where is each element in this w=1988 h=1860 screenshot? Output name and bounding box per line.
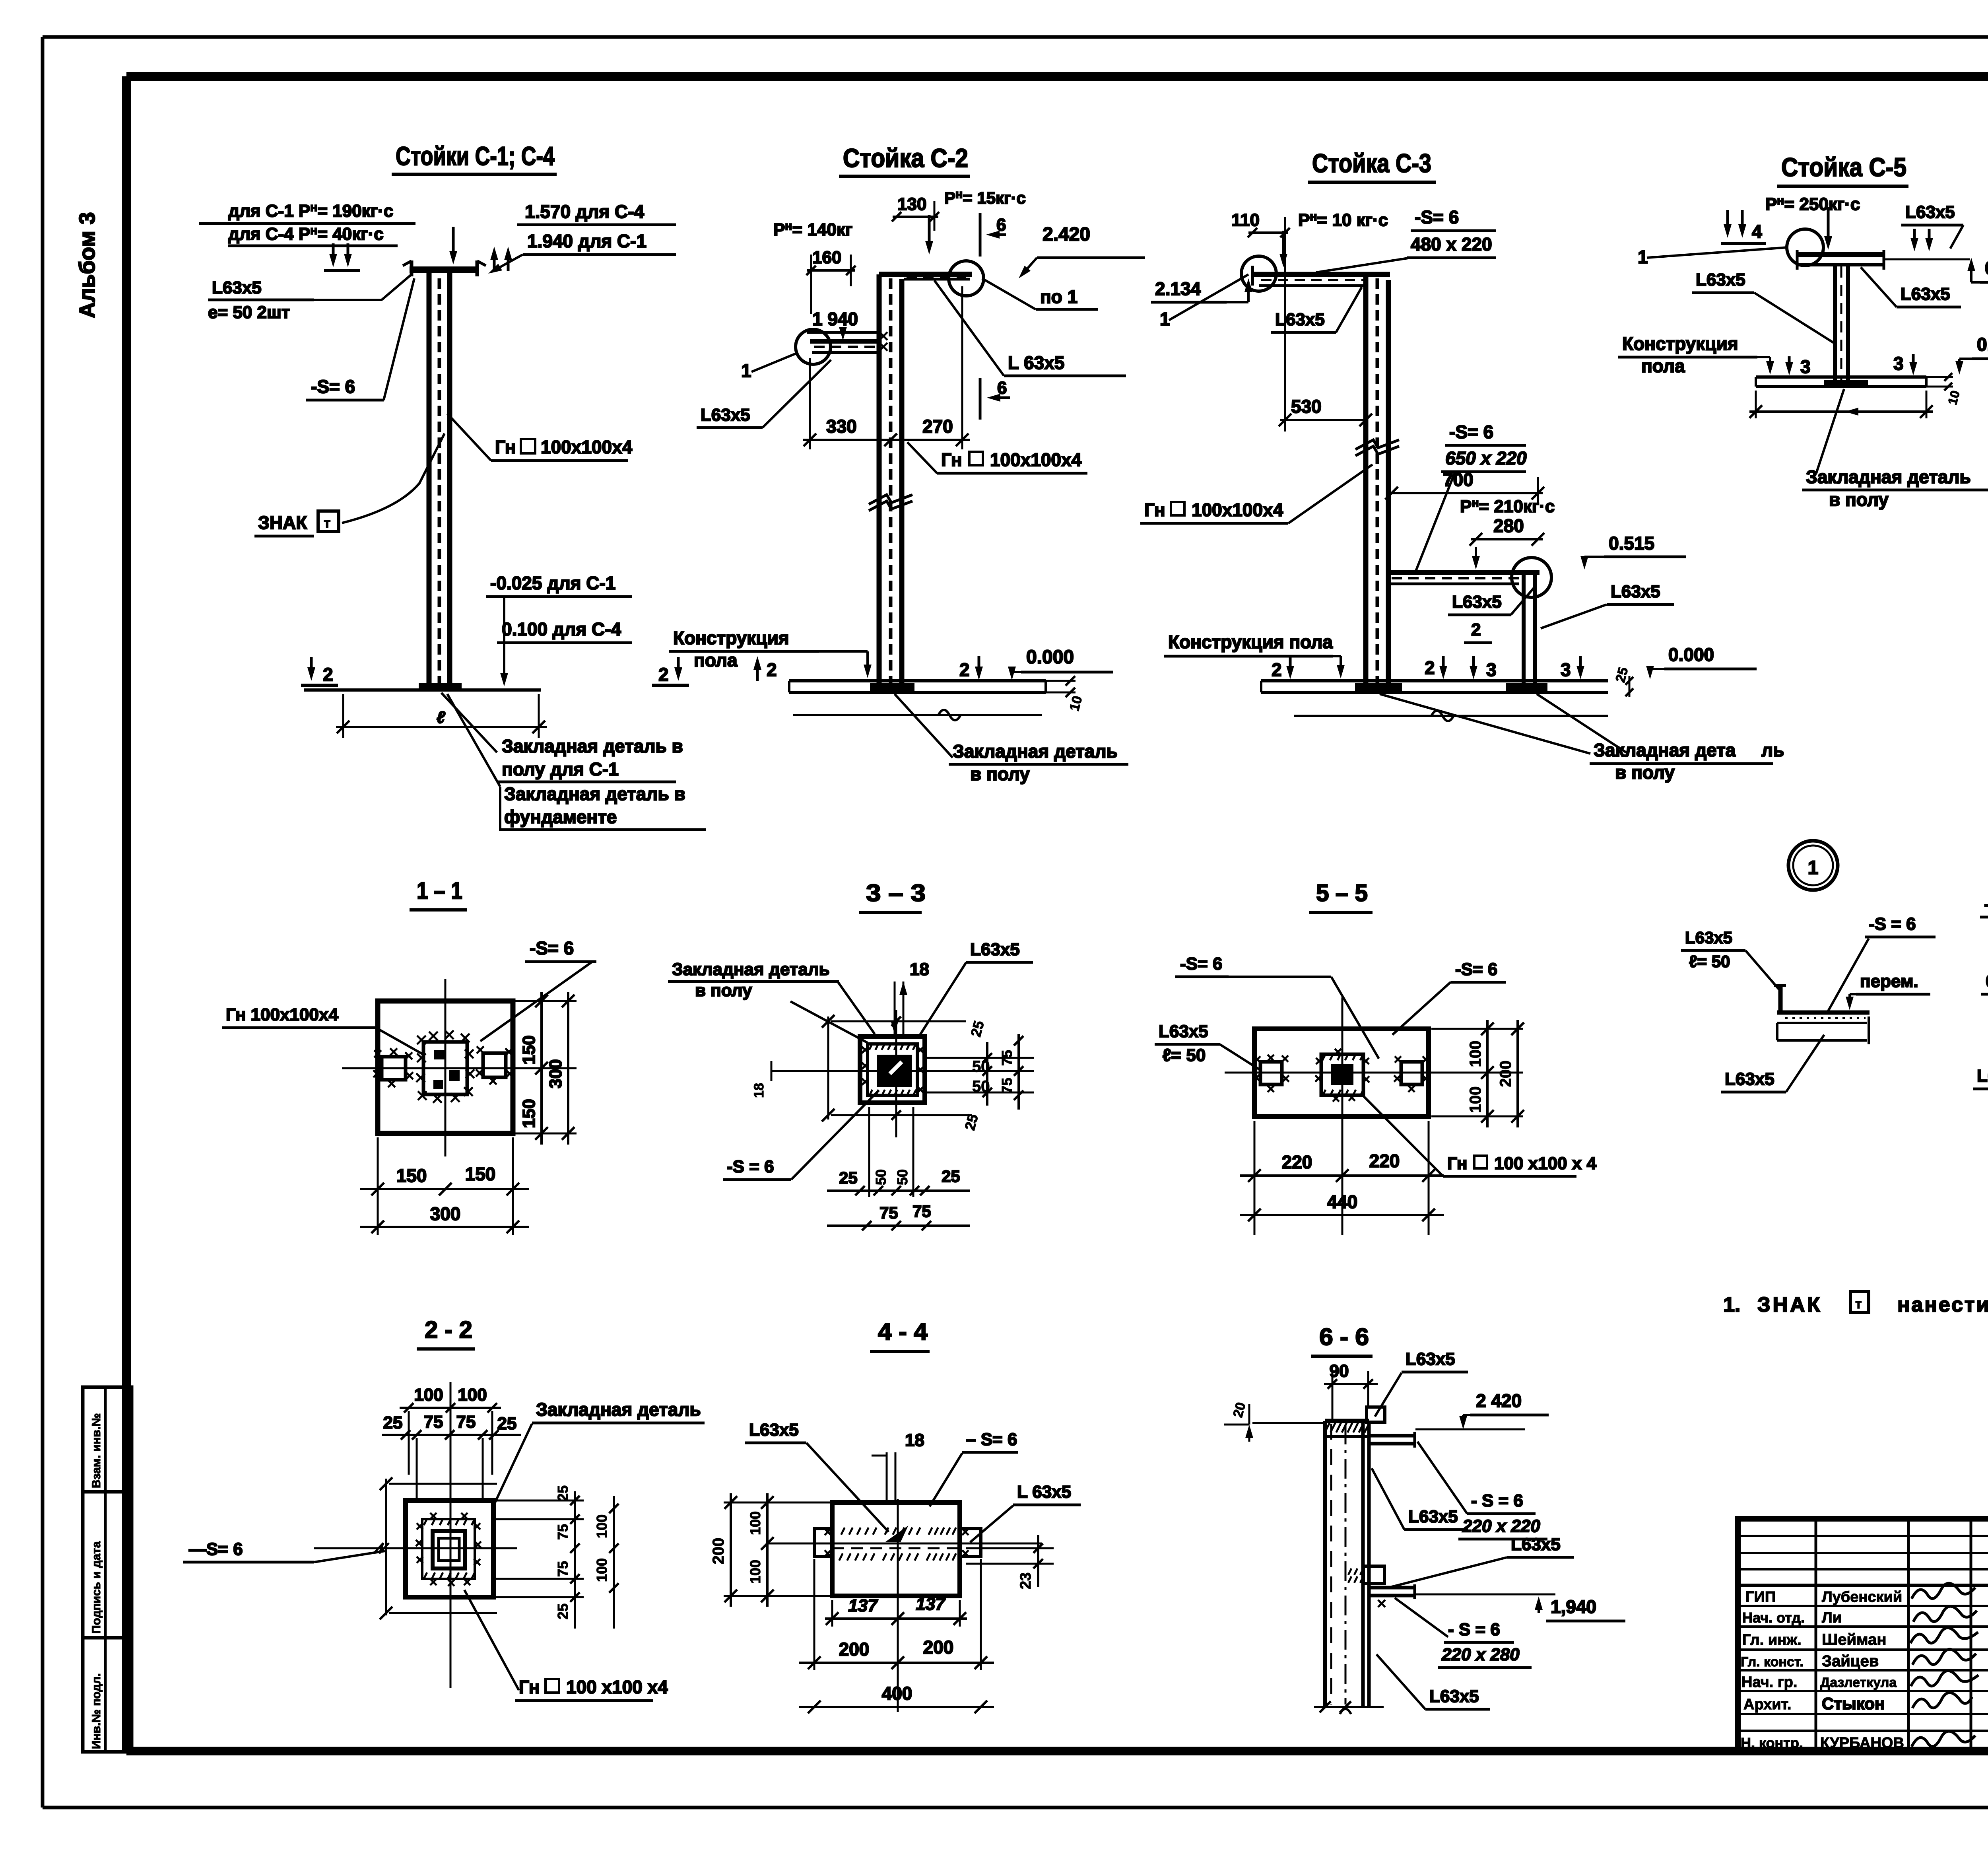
top bracket 6-6 bbox=[1369, 1429, 1525, 1448]
svg-text:в полу: в полу bbox=[1615, 762, 1675, 783]
svg-text:2: 2 bbox=[1471, 620, 1481, 639]
svg-text:1 – 1: 1 – 1 bbox=[417, 877, 462, 904]
signature labels column bbox=[1741, 1589, 1805, 1751]
dims 25 75 75 25 right sec 2-2 bbox=[495, 1485, 584, 1629]
svg-text:фундаменте: фундаменте bbox=[504, 807, 617, 827]
section mark 2 mid C-3 bbox=[1425, 656, 1447, 679]
stub right 4-4 bbox=[960, 1529, 981, 1557]
svg-text:110: 110 bbox=[1231, 210, 1260, 230]
svg-text:-S= 6: -S= 6 bbox=[1449, 422, 1493, 442]
label L63x5 bottom sec 6-6 bbox=[1376, 1654, 1490, 1709]
svg-text:5 – 5: 5 – 5 bbox=[1316, 880, 1368, 906]
C-3 column shaft bbox=[1366, 274, 1388, 689]
svg-text:Гн: Гн bbox=[1144, 499, 1165, 520]
callout circle C-3 beam end bbox=[1241, 256, 1276, 291]
label L63x5 top right C-5 bbox=[1901, 202, 1963, 251]
svg-text:3: 3 bbox=[1800, 356, 1811, 377]
svg-text:6: 6 bbox=[996, 215, 1006, 235]
dims 200 200 below 4-4 bbox=[799, 1559, 994, 1670]
svg-text:1,940: 1,940 bbox=[1551, 1596, 1596, 1617]
svg-text:Ли: Ли bbox=[1822, 1609, 1842, 1626]
section mark 1-1 left bbox=[324, 243, 360, 270]
svg-text:100: 100 bbox=[1467, 1086, 1484, 1113]
svg-text:е= 50 2шт: е= 50 2шт bbox=[208, 303, 290, 322]
svg-text:3: 3 bbox=[1893, 353, 1904, 374]
top stub 6-6 bbox=[1367, 1407, 1385, 1422]
elevation 1.940 sec 6-6 bbox=[1535, 1596, 1625, 1621]
svg-text:23: 23 bbox=[1017, 1572, 1034, 1589]
label L63x5 top left 4-4 bbox=[745, 1420, 889, 1532]
label konstrukciya pola C-2 bbox=[669, 628, 872, 678]
svg-text:ЗНАК: ЗНАК bbox=[258, 512, 307, 533]
anchor right 5-5 bbox=[1394, 1056, 1429, 1092]
svg-text:L63х5: L63х5 bbox=[1685, 928, 1732, 947]
svg-text:Закладная деталь: Закладная деталь bbox=[536, 1399, 701, 1420]
label Vzam inv no bbox=[90, 1413, 103, 1488]
detail callout circle 1 bbox=[1788, 841, 1838, 890]
svg-text:2 420: 2 420 bbox=[1476, 1390, 1522, 1411]
svg-text:0.000: 0.000 bbox=[1977, 334, 1988, 355]
svg-text:ГИП: ГИП bbox=[1745, 1589, 1776, 1605]
svg-text:75: 75 bbox=[555, 1524, 571, 1540]
svg-text:1 940: 1 940 bbox=[812, 309, 858, 329]
section mark 3 left C-3 bbox=[1470, 656, 1497, 680]
svg-text:270: 270 bbox=[922, 416, 953, 437]
svg-text:ℓ: ℓ bbox=[437, 708, 445, 727]
svg-text:Лубенский: Лубенский bbox=[1822, 1589, 1902, 1605]
C-5 tee cap bbox=[1797, 250, 1884, 270]
label L63x5 mid detail 2 bbox=[1973, 1024, 1988, 1089]
svg-text:L 63х5: L 63х5 bbox=[1008, 352, 1064, 373]
svg-text:200: 200 bbox=[1497, 1061, 1514, 1087]
svg-text:75: 75 bbox=[424, 1412, 443, 1432]
label -S=6 480x220 bbox=[1316, 207, 1496, 272]
svg-text:75: 75 bbox=[999, 1050, 1015, 1066]
Album 3 margin text bbox=[74, 212, 99, 318]
dims 100 100 above 2-2 bbox=[400, 1385, 501, 1413]
dim 700 C-3 bbox=[1385, 469, 1544, 505]
svg-text:Взам. инв.№: Взам. инв.№ bbox=[90, 1413, 103, 1488]
label konstrukciya pola C-3 bbox=[1164, 632, 1345, 678]
label zakladnaya detal v polu C-3 bbox=[1380, 694, 1784, 783]
elevation -0.025 dlya C-1 bbox=[486, 573, 632, 597]
svg-text:330: 330 bbox=[826, 416, 857, 437]
dims 100 100 200 right sec 5-5 bbox=[1431, 1020, 1524, 1127]
svg-text:18: 18 bbox=[751, 1083, 767, 1098]
callout 1 label on C-2 bracket bbox=[741, 353, 797, 381]
svg-text:2: 2 bbox=[1272, 659, 1282, 680]
elevation 0.000 C-2 bbox=[1008, 647, 1113, 680]
svg-text:Стойка С-5: Стойка С-5 bbox=[1781, 152, 1906, 182]
svg-text:50: 50 bbox=[873, 1169, 889, 1185]
label zakladnaya detal v fundamente bbox=[447, 694, 706, 831]
label L63x5 left C-5 bbox=[1692, 270, 1834, 343]
svg-text:L63х5: L63х5 bbox=[1977, 1066, 1988, 1086]
dim 18 left sec 3-3 bbox=[751, 1061, 771, 1098]
svg-text:440: 440 bbox=[1327, 1191, 1358, 1212]
label zakladnaya detal v polu dlya C-1 bbox=[441, 693, 683, 782]
section mark 2-2 left of C-1 base bbox=[301, 657, 338, 685]
section mark 2 right C-2 bbox=[959, 656, 983, 680]
svg-text:Дазлеткула: Дазлеткула bbox=[1820, 1675, 1897, 1690]
center lines 5-5 bbox=[1225, 997, 1471, 1235]
load Pn=140kg bbox=[773, 220, 852, 239]
svg-text:75: 75 bbox=[879, 1203, 898, 1222]
load Pn=210kgs C-3 bbox=[1460, 496, 1555, 516]
label -S=6 left sec 2-2 bbox=[183, 1539, 385, 1562]
svg-text:1: 1 bbox=[1638, 247, 1648, 267]
svg-text:50: 50 bbox=[972, 1078, 990, 1095]
svg-text:25: 25 bbox=[555, 1485, 571, 1501]
svg-text:2: 2 bbox=[959, 659, 970, 680]
svg-text:-S = 6: -S = 6 bbox=[727, 1157, 774, 1176]
svg-text:перем.: перем. bbox=[1860, 972, 1918, 991]
svg-text:220 х 220: 220 х 220 bbox=[1462, 1516, 1540, 1536]
svg-text:для С-4 Рн= 40кг·с: для С-4 Рн= 40кг·с bbox=[228, 224, 384, 244]
svg-text:100: 100 bbox=[747, 1560, 763, 1584]
znak T label bbox=[254, 433, 445, 536]
svg-text:650 х 220: 650 х 220 bbox=[1445, 448, 1527, 468]
dim 18 top sec 3-3 bbox=[891, 960, 929, 1034]
svg-text:100: 100 bbox=[458, 1385, 487, 1405]
label L63x5 top 6-6 bbox=[1375, 1349, 1468, 1417]
callout po 1 bbox=[982, 278, 1098, 309]
column tube section 2-2 bbox=[433, 1531, 465, 1568]
section title 6-6 bbox=[1311, 1324, 1373, 1356]
C-1 base line bbox=[304, 683, 541, 690]
label zakladnaya detal v polu sec 3-3 bbox=[668, 960, 875, 1043]
svg-text:L63х5: L63х5 bbox=[1696, 270, 1745, 290]
label Gn 100x100x4 on C-3 bbox=[1140, 465, 1373, 523]
svg-text:Гн: Гн bbox=[519, 1677, 540, 1697]
dims 50 50 75 75 25 25 right sec 3-3 bbox=[926, 1019, 1034, 1132]
signature names column bbox=[1820, 1589, 1904, 1751]
svg-text:Стойки С-1; С-4: Стойки С-1; С-4 bbox=[396, 141, 555, 171]
svg-text:ль: ль bbox=[1761, 740, 1784, 760]
svg-text:Конструкция: Конструкция bbox=[673, 628, 789, 648]
svg-text:-S= 6: -S= 6 bbox=[1455, 960, 1497, 979]
section title 4-4 bbox=[870, 1318, 930, 1351]
svg-text:L63х5: L63х5 bbox=[1408, 1507, 1458, 1526]
svg-text:4 - 4: 4 - 4 bbox=[878, 1318, 928, 1345]
anchor left 5-5 bbox=[1253, 1055, 1289, 1092]
label -S=6 220x280 sec 6-6 bbox=[1395, 1598, 1532, 1668]
base plate 1-1 bbox=[378, 1001, 513, 1133]
dim 130 over C-2 bbox=[892, 194, 939, 231]
svg-text:Альбом 3: Альбом 3 bbox=[74, 212, 99, 318]
svg-text:150: 150 bbox=[465, 1164, 496, 1184]
svg-text:2: 2 bbox=[658, 664, 669, 685]
svg-text:Гн 100х100х4: Гн 100х100х4 bbox=[226, 1005, 338, 1024]
C-1 base dimension line bbox=[336, 694, 547, 738]
top flange hatch 6-6 bbox=[1325, 1421, 1369, 1436]
svg-text:25: 25 bbox=[383, 1413, 403, 1432]
base plate 3-3 bbox=[860, 1036, 925, 1103]
elevation 0.515 detail 2 bbox=[1981, 972, 1988, 1009]
svg-text:-S= 6: -S= 6 bbox=[311, 376, 355, 397]
elevation 1.940 dlya C-1 bbox=[488, 231, 676, 274]
dim 530 C-3 bbox=[1279, 247, 1372, 431]
svg-text:3: 3 bbox=[1486, 659, 1497, 680]
note 1 znak T bbox=[1723, 1292, 1988, 1316]
label L63x5 bottom detail 1 bbox=[1721, 1035, 1824, 1092]
dim 400 below 4-4 bbox=[799, 1683, 994, 1713]
column section 3-3 bbox=[862, 1044, 924, 1096]
label L63x5 second sec 6-6 bbox=[1372, 1468, 1468, 1530]
svg-text:Н. контр.: Н. контр. bbox=[1741, 1735, 1803, 1751]
label konstrukciya pola C-5 bbox=[1618, 333, 1774, 376]
svg-text:Архит.: Архит. bbox=[1743, 1696, 1791, 1713]
section mark 2 left C-2 bbox=[753, 656, 777, 681]
svg-text:L63х5: L63х5 bbox=[1275, 310, 1325, 329]
svg-text:т: т bbox=[324, 515, 331, 531]
load arrow on C-1 cap bbox=[449, 227, 457, 264]
title Stoika C-3 bbox=[1308, 148, 1436, 182]
section mark 6 lower bbox=[980, 378, 1010, 420]
svg-text:0.100 для С-4: 0.100 для С-4 bbox=[502, 619, 621, 639]
svg-text:2: 2 bbox=[1425, 657, 1435, 678]
svg-text:130: 130 bbox=[897, 194, 926, 214]
callout circle C-3 bracket end bbox=[1512, 558, 1551, 597]
label zakladnaya detal v polu C-5 bbox=[1802, 389, 1988, 510]
svg-text:200: 200 bbox=[839, 1639, 870, 1660]
callout circle on C-2 bracket bbox=[796, 329, 831, 364]
svg-text:50: 50 bbox=[972, 1058, 990, 1075]
svg-text:100 х100 х 4: 100 х100 х 4 bbox=[1494, 1154, 1596, 1173]
svg-text:2: 2 bbox=[767, 659, 777, 680]
svg-text:50: 50 bbox=[894, 1169, 911, 1185]
svg-text:-S= 6: -S= 6 bbox=[1180, 954, 1222, 974]
elevation 2.420 on C-2 bbox=[1019, 224, 1145, 278]
label L63x5 sec 3-3 bbox=[919, 940, 1033, 1036]
elevation 0.000 C-3 bbox=[1646, 644, 1757, 679]
section mark 3 right C-3 bbox=[1561, 656, 1584, 680]
svg-text:2: 2 bbox=[323, 664, 333, 685]
svg-text:100: 100 bbox=[594, 1514, 610, 1538]
svg-text:т: т bbox=[1855, 1296, 1862, 1312]
column base ticks 6-6 bbox=[1314, 1701, 1384, 1714]
svg-text:100х100х4: 100х100х4 bbox=[541, 437, 633, 457]
svg-text:Инв.№ подл.: Инв.№ подл. bbox=[90, 1673, 103, 1749]
dim 1940 on C-2 bracket bbox=[807, 309, 877, 340]
svg-text:Шейман: Шейман bbox=[1822, 1631, 1887, 1648]
dim 20 left 6-6 bbox=[1224, 1401, 1324, 1442]
svg-text:18: 18 bbox=[910, 960, 929, 979]
svg-text:1.570 для С-4: 1.570 для С-4 bbox=[525, 201, 644, 222]
svg-text:100: 100 bbox=[594, 1558, 610, 1582]
label Gn 100x100x4 on C-2 bbox=[907, 442, 1087, 473]
label L63x5 l=50 sec 5-5 bbox=[1155, 1022, 1261, 1071]
anchor angle right 1-1 bbox=[476, 1046, 513, 1085]
svg-text:Стойка С-2: Стойка С-2 bbox=[843, 143, 968, 173]
svg-text:100: 100 bbox=[414, 1385, 443, 1405]
svg-text:2.134: 2.134 bbox=[1155, 278, 1201, 299]
svg-text:Закладная деталь: Закладная деталь bbox=[672, 960, 830, 979]
section title 1-1 bbox=[410, 877, 467, 910]
svg-text:150: 150 bbox=[519, 1035, 539, 1064]
label -S=6 detail 2 bbox=[1980, 894, 1988, 1010]
svg-text:—S= 6: —S= 6 bbox=[189, 1539, 243, 1559]
svg-text:280: 280 bbox=[1493, 515, 1524, 536]
svg-text:Конструкция: Конструкция bbox=[1622, 333, 1738, 354]
label -S=6 detail 1 bbox=[1828, 914, 1936, 1011]
svg-text:КУРБАНОВ: КУРБАНОВ bbox=[1820, 1735, 1904, 1751]
elevation 2.134 C-3 bbox=[1151, 278, 1252, 302]
C-2 bracket arm left bbox=[810, 332, 887, 352]
svg-text:150: 150 bbox=[396, 1165, 427, 1186]
elevation 0.570 C-5 bbox=[1885, 258, 1988, 282]
extension cross sec 3-3 bbox=[771, 1010, 1034, 1137]
column section 5-5 bbox=[1315, 1049, 1369, 1102]
base plate 5-5 bbox=[1254, 1029, 1429, 1116]
section title 3-3 bbox=[859, 880, 926, 912]
title Stoiki C-1 C-4 bbox=[392, 141, 557, 174]
extension cross 2-2 bbox=[314, 1382, 517, 1688]
load Pn=10kgs C-3 bbox=[1279, 210, 1388, 267]
svg-text:L63х5: L63х5 bbox=[212, 278, 262, 297]
label perem detail 1 bbox=[1846, 972, 1930, 1010]
svg-text:100: 100 bbox=[747, 1511, 763, 1535]
svg-text:Нач. отд.: Нач. отд. bbox=[1742, 1609, 1805, 1626]
dim 90 sec 6-6 bbox=[1324, 1361, 1378, 1419]
title Stoika C-2 bbox=[839, 143, 970, 176]
svg-text:ℓ= 50: ℓ= 50 bbox=[1689, 952, 1730, 971]
section mark 1-1 right bbox=[490, 247, 512, 271]
svg-text:- S = 6: - S = 6 bbox=[1448, 1620, 1500, 1639]
label -S=6 sec 4-4 bbox=[930, 1430, 1018, 1506]
svg-text:700: 700 bbox=[1443, 469, 1474, 490]
break mark on C-2 shaft bbox=[869, 495, 912, 511]
dim 23 right 4-4 bbox=[966, 1535, 1054, 1589]
svg-text:ЗНАК: ЗНАК bbox=[1757, 1293, 1822, 1316]
svg-text:75: 75 bbox=[456, 1412, 476, 1432]
detail 1 channel bbox=[1774, 985, 1870, 1044]
svg-text:Подпись и дата: Подпись и дата bbox=[90, 1541, 103, 1634]
svg-text:-S= 6: -S= 6 bbox=[1415, 207, 1459, 227]
section mark 4 C-5 bbox=[1721, 210, 1766, 243]
svg-text:530: 530 bbox=[1291, 396, 1322, 417]
svg-text:Закладная деталь: Закладная деталь bbox=[1806, 466, 1971, 487]
label -S=6 left sec 5-5 bbox=[1175, 954, 1379, 1059]
svg-text:-0.025 для С-1: -0.025 для С-1 bbox=[490, 573, 615, 593]
label L63x5 right of C-2 bbox=[934, 280, 1126, 376]
label -S=6 lower sec 3-3 bbox=[723, 1090, 879, 1180]
dims 330 270 on C-2 bbox=[803, 286, 970, 449]
section mark 6 upper bbox=[980, 213, 1006, 257]
C-5 floor line bbox=[1756, 377, 1926, 387]
C-5 tee stem bbox=[1835, 265, 1848, 387]
label L63x5 at strut bbox=[1541, 582, 1674, 628]
label Gn 100x100x4 sec 5-5 bbox=[1363, 1096, 1596, 1176]
callout 1 C-5 bbox=[1638, 247, 1788, 267]
svg-text:3 – 3: 3 – 3 bbox=[866, 880, 926, 906]
dim 160 on C-2 bbox=[806, 248, 856, 314]
label L63x5 2 under bracket bbox=[1448, 588, 1534, 643]
C-3 lower bracket beam bbox=[1390, 573, 1540, 584]
column 6-6 bbox=[1325, 1421, 1369, 1707]
C-2 top beam bbox=[879, 274, 972, 279]
svg-text:Гн: Гн bbox=[1447, 1154, 1467, 1173]
svg-text:75: 75 bbox=[912, 1202, 931, 1221]
svg-text:Закладная деталь в: Закладная деталь в bbox=[502, 736, 683, 756]
stub left 4-4 bbox=[814, 1529, 832, 1557]
load Pn=250kgs C-5 bbox=[1765, 194, 1860, 250]
base plate 2-2 bbox=[406, 1500, 493, 1597]
label -S=6 on C-1 bbox=[306, 278, 414, 400]
svg-text:220: 220 bbox=[1282, 1152, 1312, 1172]
svg-text:25: 25 bbox=[942, 1167, 960, 1186]
svg-text:0.000: 0.000 bbox=[1026, 647, 1074, 668]
label L63x5 left of C-2 bbox=[697, 360, 831, 428]
dims 25 75 75 25 above 2-2 bbox=[382, 1411, 521, 1503]
center lines 4-4 bbox=[767, 1499, 1042, 1712]
svg-text:220 х 280: 220 х 280 bbox=[1441, 1645, 1520, 1664]
svg-text:Стыкон: Стыкон bbox=[1822, 1694, 1885, 1713]
load Pn=15kgs bbox=[925, 188, 1026, 255]
callout 1 at C-3 beam bbox=[1160, 274, 1248, 329]
callout circle C-5 bbox=[1787, 229, 1823, 266]
svg-text:L63х5: L63х5 bbox=[1901, 284, 1950, 304]
svg-text:Закладная деталь: Закладная деталь bbox=[953, 741, 1118, 762]
svg-text:25: 25 bbox=[555, 1603, 571, 1619]
svg-text:137: 137 bbox=[848, 1596, 878, 1615]
svg-text:100 х100 х4: 100 х100 х4 bbox=[566, 1677, 668, 1697]
callout circle on C-2 beam end bbox=[949, 261, 984, 296]
svg-text:2.420: 2.420 bbox=[1043, 224, 1090, 245]
section title 5-5 bbox=[1309, 880, 1373, 912]
label L63x5 under C-3 beam bbox=[1271, 287, 1362, 332]
title block signature grid bbox=[1738, 1519, 1988, 1751]
column C-1 shaft Gn 100x100x4 bbox=[429, 273, 450, 689]
dims 220 220 440 below sec 5-5 bbox=[1240, 1121, 1444, 1235]
signatures scribbles bbox=[1910, 1583, 1978, 1747]
label L63x5 e=50 2sht bbox=[208, 274, 412, 322]
dim 25 at C-3 floor bbox=[1613, 666, 1633, 697]
svg-text:L63х5: L63х5 bbox=[1905, 202, 1955, 222]
svg-text:200: 200 bbox=[710, 1538, 727, 1565]
svg-text:-S= 6: -S= 6 bbox=[530, 938, 574, 958]
label L63x5 right 4-4 bbox=[970, 1482, 1081, 1542]
svg-text:75: 75 bbox=[555, 1561, 571, 1577]
svg-text:200: 200 bbox=[923, 1637, 954, 1658]
svg-text:L 63х5: L 63х5 bbox=[1017, 1482, 1071, 1502]
svg-text:L63х5: L63х5 bbox=[1429, 1687, 1479, 1706]
dims 137 137 below 4-4 bbox=[825, 1594, 967, 1627]
svg-text:2 - 2: 2 - 2 bbox=[425, 1316, 472, 1343]
svg-text:1: 1 bbox=[1808, 857, 1819, 878]
svg-text:0.570: 0.570 bbox=[1985, 258, 1988, 278]
svg-text:25: 25 bbox=[497, 1414, 517, 1433]
svg-text:300: 300 bbox=[430, 1203, 461, 1224]
svg-text:L63х5: L63х5 bbox=[1159, 1022, 1208, 1041]
dims 150 150 300 right of 1-1 bbox=[515, 992, 577, 1145]
label -S=6 right sec 5-5 bbox=[1392, 960, 1506, 1035]
dims bottom sec 3-3 bbox=[827, 1107, 970, 1230]
C-5 base dim line bbox=[1749, 391, 1933, 418]
svg-text:137: 137 bbox=[916, 1594, 946, 1614]
break mark C-3 shaft bbox=[1355, 440, 1399, 456]
title Stoika C-5 bbox=[1777, 152, 1908, 186]
elevation 2 420 sec 6-6 bbox=[1459, 1390, 1549, 1429]
section mark 2-2 right of C-1 base bbox=[652, 657, 689, 685]
svg-text:400: 400 bbox=[882, 1683, 912, 1704]
svg-text:L63х5: L63х5 bbox=[1725, 1069, 1774, 1089]
svg-text:- S = 6: - S = 6 bbox=[1471, 1491, 1523, 1510]
label zakladnaya detal sec 2-2 bbox=[495, 1399, 705, 1502]
label Gn 100x100x4 sec 2-2 bbox=[464, 1590, 668, 1701]
svg-text:-S = 6: -S = 6 bbox=[1984, 894, 1988, 914]
svg-text:L63х5: L63х5 bbox=[1406, 1349, 1455, 1369]
